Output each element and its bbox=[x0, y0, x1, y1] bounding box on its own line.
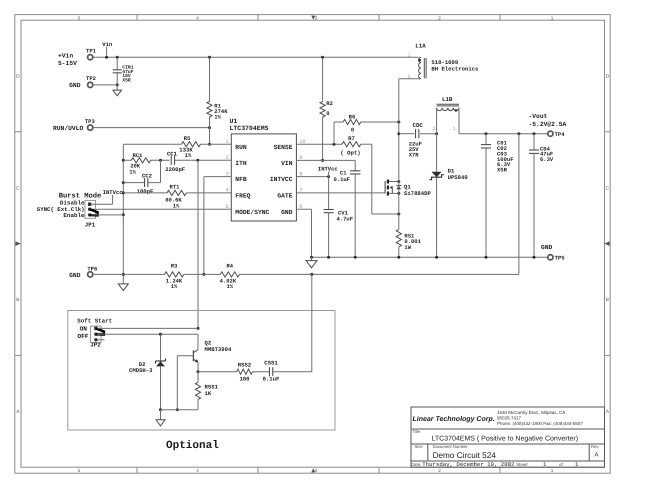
svg-text:Enable: Enable bbox=[63, 212, 85, 219]
svg-text:1%: 1% bbox=[226, 283, 233, 290]
svg-text:2: 2 bbox=[438, 468, 441, 473]
svg-text:Si7884DP: Si7884DP bbox=[404, 190, 431, 197]
svg-text:Size: Size bbox=[415, 444, 424, 449]
svg-text:RSS2: RSS2 bbox=[238, 361, 252, 368]
svg-text:MODE/SYNC: MODE/SYNC bbox=[235, 209, 269, 216]
svg-text:LTC3704EMS: LTC3704EMS bbox=[230, 125, 269, 132]
svg-text:NFB: NFB bbox=[235, 176, 247, 183]
svg-text:Rev: Rev bbox=[591, 444, 599, 449]
svg-text:1: 1 bbox=[407, 53, 410, 59]
svg-text:1K: 1K bbox=[205, 390, 212, 397]
svg-text:Soft Start: Soft Start bbox=[77, 317, 112, 324]
svg-text:UPS840: UPS840 bbox=[448, 174, 469, 181]
svg-text:5-15V: 5-15V bbox=[58, 60, 77, 67]
svg-text:5: 5 bbox=[78, 15, 81, 20]
svg-text:ITH: ITH bbox=[235, 160, 247, 167]
svg-text:D: D bbox=[16, 74, 20, 80]
svg-text:GND: GND bbox=[281, 209, 293, 216]
svg-text:R2: R2 bbox=[326, 100, 333, 107]
svg-text:MMBT3904: MMBT3904 bbox=[205, 346, 232, 353]
svg-text:B: B bbox=[606, 297, 609, 303]
svg-text:RUN/UVLO: RUN/UVLO bbox=[53, 125, 83, 132]
svg-text:OFF: OFF bbox=[77, 333, 88, 340]
svg-text:5: 5 bbox=[78, 468, 81, 473]
svg-text:L1B: L1B bbox=[442, 96, 453, 103]
svg-text:X5R: X5R bbox=[122, 78, 131, 84]
svg-text:R4: R4 bbox=[226, 262, 233, 269]
svg-text:-Vout: -Vout bbox=[529, 113, 548, 120]
svg-text:JP1: JP1 bbox=[85, 222, 96, 229]
svg-text:+Vin: +Vin bbox=[58, 52, 73, 59]
svg-text:C: C bbox=[16, 185, 20, 191]
svg-text:TP1: TP1 bbox=[86, 47, 97, 54]
svg-text:Thursday, December 19, 2002: Thursday, December 19, 2002 bbox=[422, 461, 515, 468]
svg-text:CDC: CDC bbox=[412, 122, 423, 129]
svg-text:R6: R6 bbox=[349, 113, 356, 120]
svg-text:RC1: RC1 bbox=[133, 152, 144, 159]
svg-text:SENSE: SENSE bbox=[274, 144, 293, 151]
svg-text:100pF: 100pF bbox=[137, 188, 154, 195]
svg-text:R3: R3 bbox=[171, 262, 178, 269]
svg-text:L1A: L1A bbox=[415, 43, 426, 50]
svg-text:BH Electronics: BH Electronics bbox=[431, 66, 479, 73]
svg-text:GATE: GATE bbox=[277, 193, 292, 200]
svg-text:GND: GND bbox=[69, 272, 81, 279]
svg-text:2: 2 bbox=[225, 155, 228, 161]
svg-text:1W: 1W bbox=[404, 244, 411, 251]
svg-text:Optional: Optional bbox=[166, 440, 219, 452]
svg-text:100: 100 bbox=[239, 376, 250, 383]
svg-text:GND: GND bbox=[541, 244, 553, 251]
svg-text:X7R: X7R bbox=[409, 151, 420, 158]
svg-text:ON: ON bbox=[80, 326, 88, 333]
svg-text:4: 4 bbox=[196, 15, 199, 20]
svg-text:TP4: TP4 bbox=[555, 131, 566, 138]
svg-text:FREQ: FREQ bbox=[235, 193, 250, 200]
svg-text:0.1uF: 0.1uF bbox=[263, 376, 280, 383]
svg-text:Sheet: Sheet bbox=[516, 462, 528, 467]
svg-text:RUN: RUN bbox=[235, 144, 247, 151]
svg-text:1: 1 bbox=[551, 15, 554, 20]
svg-text:2: 2 bbox=[438, 15, 441, 20]
svg-text:X5R: X5R bbox=[497, 167, 508, 174]
svg-text:1%: 1% bbox=[171, 283, 178, 290]
svg-text:R7: R7 bbox=[348, 135, 355, 142]
svg-text:0: 0 bbox=[326, 110, 329, 117]
svg-text:1630 McCarthy Blvd., Milpitas,: 1630 McCarthy Blvd., Milpitas, CA bbox=[497, 410, 565, 415]
svg-text:1%: 1% bbox=[185, 152, 192, 159]
svg-text:Document Number: Document Number bbox=[433, 444, 469, 449]
svg-text:0.1uF: 0.1uF bbox=[333, 176, 350, 183]
svg-text:B: B bbox=[16, 297, 19, 303]
svg-text:INTVcc: INTVcc bbox=[318, 165, 338, 172]
svg-text:2: 2 bbox=[432, 126, 435, 132]
svg-text:1: 1 bbox=[543, 461, 547, 468]
svg-text:JP2: JP2 bbox=[90, 342, 101, 349]
svg-text:Demo Circuit 524: Demo Circuit 524 bbox=[433, 451, 497, 460]
svg-text:4: 4 bbox=[225, 188, 228, 194]
svg-text:Linear Technology Corp.: Linear Technology Corp. bbox=[413, 415, 495, 423]
svg-text:1: 1 bbox=[575, 461, 579, 468]
svg-text:Vin: Vin bbox=[102, 41, 113, 48]
svg-text:A: A bbox=[595, 452, 599, 459]
svg-text:1%: 1% bbox=[173, 202, 180, 209]
svg-text:( Opt): ( Opt) bbox=[340, 150, 360, 157]
svg-text:Phone: (408)432-1900 Fax: (408: Phone: (408)432-1900 Fax: (408)434-0507 bbox=[497, 421, 583, 426]
svg-text:TP6: TP6 bbox=[87, 266, 97, 273]
svg-text:VIN: VIN bbox=[281, 160, 293, 167]
svg-text:95035-7417: 95035-7417 bbox=[497, 416, 522, 421]
svg-text:CC2: CC2 bbox=[142, 172, 153, 179]
svg-text:1%: 1% bbox=[214, 113, 221, 120]
svg-text:-5.2V@2.5A: -5.2V@2.5A bbox=[529, 121, 567, 128]
svg-text:1: 1 bbox=[551, 468, 554, 473]
svg-text:3: 3 bbox=[315, 468, 318, 473]
svg-text:U1: U1 bbox=[230, 118, 238, 125]
svg-text:RT1: RT1 bbox=[170, 184, 181, 191]
svg-text:TP2: TP2 bbox=[86, 75, 96, 82]
svg-text:GND: GND bbox=[69, 82, 81, 89]
svg-text:2200pF: 2200pF bbox=[165, 166, 185, 173]
svg-text:6.3V: 6.3V bbox=[540, 156, 554, 163]
svg-text:INTVcc: INTVcc bbox=[103, 189, 123, 196]
svg-text:1%: 1% bbox=[129, 169, 136, 176]
svg-text:CSS1: CSS1 bbox=[264, 360, 278, 367]
svg-text:TP3: TP3 bbox=[85, 118, 96, 125]
svg-text:4.7uF: 4.7uF bbox=[337, 216, 354, 223]
svg-text:C: C bbox=[606, 185, 610, 191]
svg-text:1: 1 bbox=[225, 139, 228, 145]
svg-text:Title: Title bbox=[413, 429, 421, 434]
svg-text:5: 5 bbox=[225, 204, 228, 210]
svg-text:TP5: TP5 bbox=[555, 255, 566, 262]
svg-text:Date:: Date: bbox=[411, 462, 422, 467]
svg-text:CC1: CC1 bbox=[167, 150, 178, 157]
svg-text:D: D bbox=[606, 74, 610, 80]
svg-text:R5: R5 bbox=[184, 135, 191, 142]
svg-text:INTVCC: INTVCC bbox=[270, 176, 293, 183]
svg-text:2: 2 bbox=[407, 74, 410, 80]
svg-text:4: 4 bbox=[196, 468, 199, 473]
svg-text:1: 1 bbox=[452, 126, 455, 132]
svg-text:LTC3704EMS ( Positive to Negat: LTC3704EMS ( Positive to Negative Conver… bbox=[432, 434, 579, 442]
svg-text:CMDSH-3: CMDSH-3 bbox=[129, 367, 153, 374]
